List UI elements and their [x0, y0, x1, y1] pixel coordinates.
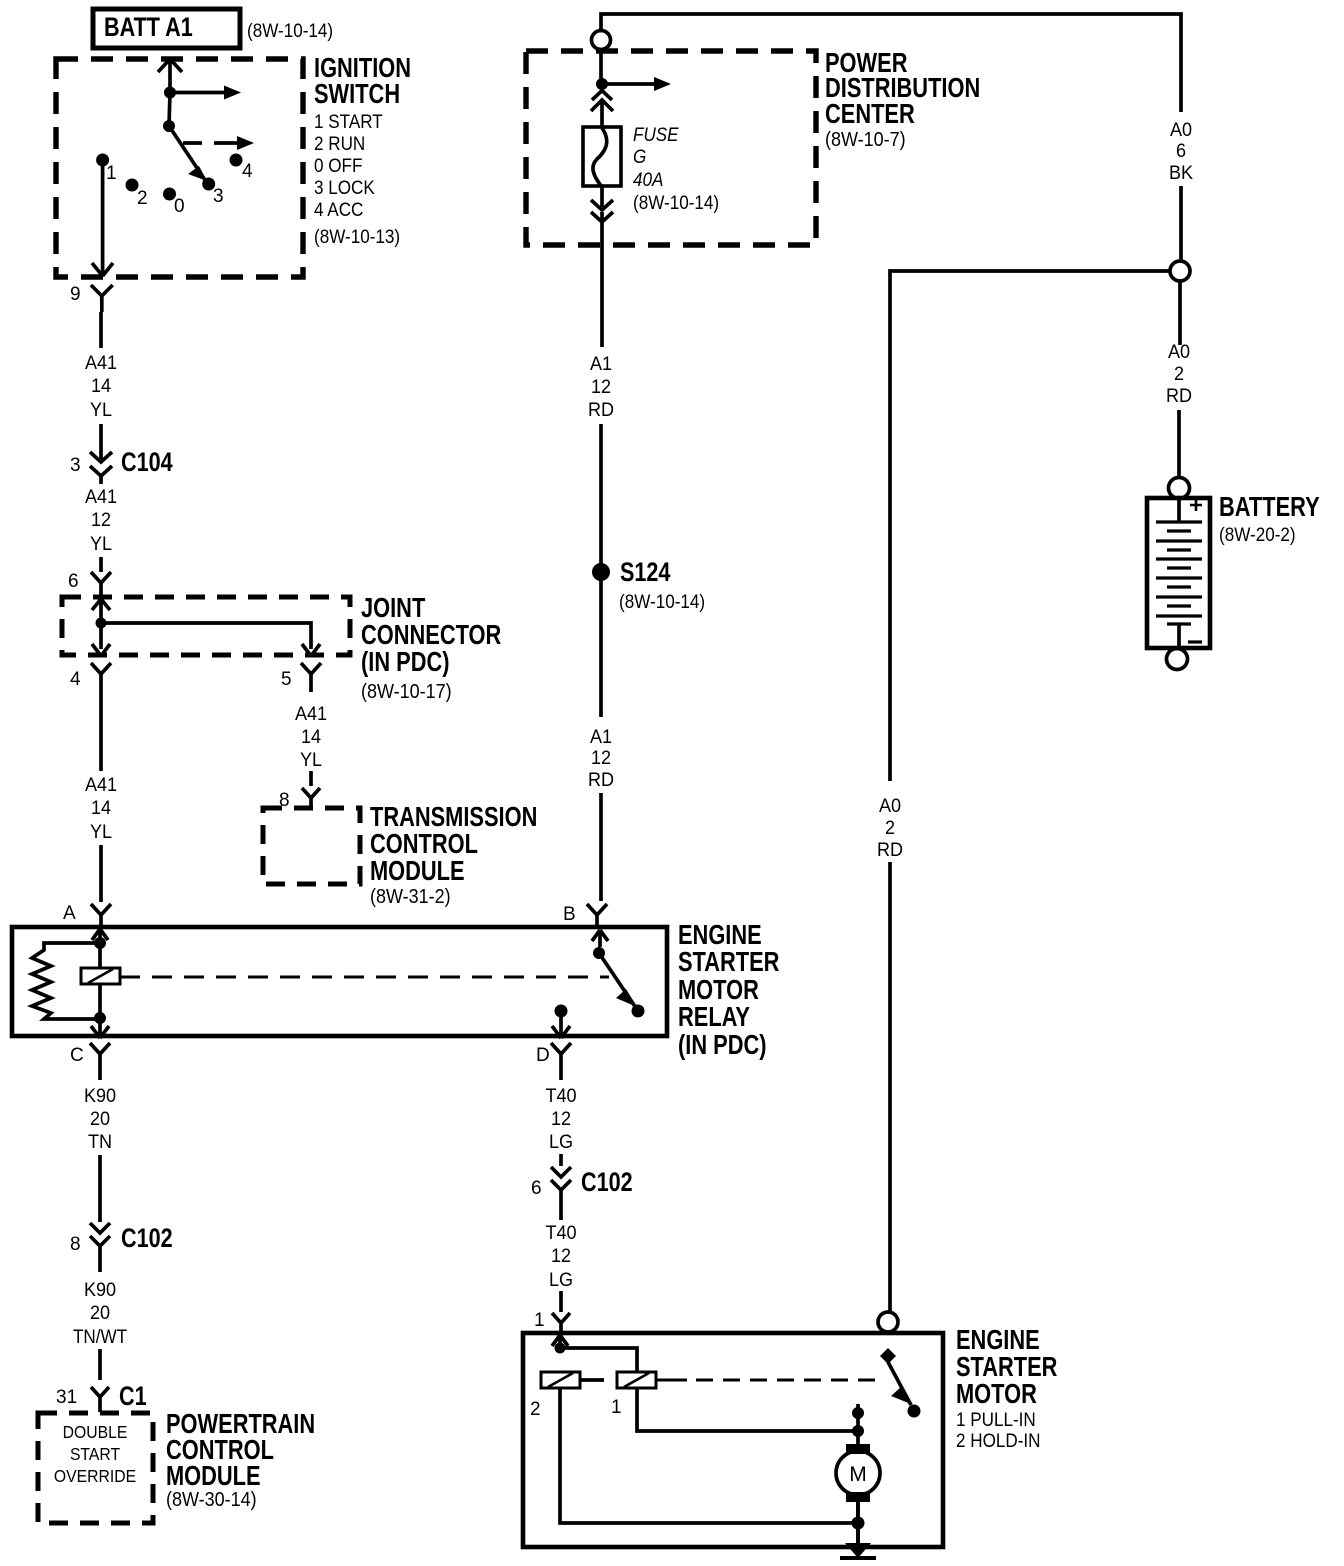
svg-text:RD: RD: [1166, 385, 1192, 407]
svg-text:C104: C104: [121, 448, 173, 478]
svg-text:C102: C102: [581, 1168, 633, 1198]
wire: PDC branch arrow right: [602, 82, 656, 86]
starter B+ diamond contact: [880, 1348, 896, 1364]
svg-text:BK: BK: [1169, 162, 1194, 184]
wire: branch to starter motor: [890, 271, 1170, 781]
svg-text:(8W-10-7): (8W-10-7): [825, 129, 906, 151]
switch contact 4: [230, 154, 243, 167]
svg-text:3 LOCK: 3 LOCK: [314, 177, 375, 198]
svg-text:START: START: [70, 1444, 120, 1464]
svg-text:BATT A1: BATT A1: [104, 13, 193, 43]
svg-text:A0: A0: [1168, 341, 1190, 363]
svg-text:(8W-10-13): (8W-10-13): [314, 226, 400, 247]
relay pin D exit arrow: [552, 1016, 570, 1038]
switch contact 0: [163, 188, 176, 201]
svg-text:(8W-10-14): (8W-10-14): [247, 20, 333, 41]
ignition switch dashed box: [56, 59, 303, 277]
relay pin A entry arrow: [92, 929, 108, 943]
motor terminal dot: [852, 1425, 864, 1437]
svg-text:1: 1: [611, 1397, 622, 1418]
svg-text:2 HOLD-IN: 2 HOLD-IN: [956, 1430, 1041, 1451]
battery internal top lead: [1177, 500, 1181, 522]
connector pin 9 (female Y): [91, 285, 113, 312]
wire: motor terminal stack: [856, 1404, 860, 1446]
arrowhead wiper: [188, 166, 207, 181]
wire: dot A to dot B: [169, 93, 170, 127]
arrowhead PDC branch: [654, 77, 671, 91]
coil mechanical link: [580, 1378, 604, 1382]
svg-text:6: 6: [531, 1178, 542, 1199]
joint connector bus wire: [101, 623, 320, 656]
svg-text:0: 0: [174, 196, 185, 217]
svg-text:4: 4: [70, 669, 81, 690]
svg-text:12: 12: [551, 1245, 571, 1267]
svg-text:A41: A41: [295, 703, 327, 725]
svg-text:RD: RD: [877, 839, 903, 861]
svg-text:(8W-30-14): (8W-30-14): [166, 1489, 257, 1511]
svg-text:TN: TN: [88, 1131, 112, 1153]
svg-text:6: 6: [1176, 140, 1186, 162]
ground symbol: [845, 1543, 871, 1558]
svg-text:M: M: [849, 1463, 867, 1486]
battery internal bottom lead: [1177, 624, 1181, 646]
fuse G rectangle: [583, 127, 621, 186]
svg-text:YL: YL: [90, 399, 112, 421]
joint connector junction dot: [96, 618, 107, 629]
svg-text:(IN PDC): (IN PDC): [361, 646, 450, 677]
svg-text:LG: LG: [549, 1131, 573, 1153]
joint connector entry arrow: [92, 599, 110, 623]
relay suppression resistor: [32, 943, 100, 1019]
wire A1 12 RD to relay pin B: [599, 793, 603, 901]
connector C1 half-Y (pin 31): [91, 1387, 109, 1412]
svg-text:12: 12: [591, 376, 611, 398]
svg-text:4: 4: [242, 161, 253, 182]
dashed accessory arrow: [183, 141, 239, 145]
engine starter motor relay box: [12, 927, 667, 1036]
svg-text:G: G: [633, 146, 646, 167]
motor brush (top): [846, 1444, 870, 1454]
svg-text:(8W-10-14): (8W-10-14): [633, 192, 719, 213]
svg-text:LG: LG: [549, 1269, 573, 1291]
svg-text:A1: A1: [590, 726, 612, 748]
relay coil K1: [81, 968, 120, 984]
motor armature circle: [836, 1451, 880, 1495]
switch wiper from B to position 3: [169, 126, 205, 180]
motor fixed contact dot (upper): [852, 1407, 864, 1419]
switch contact 3: [202, 178, 215, 191]
svg-text:RD: RD: [588, 399, 614, 421]
fuse output chevrons: [591, 186, 613, 347]
svg-text:RD: RD: [588, 769, 614, 791]
hold-in coil 2: [541, 1372, 580, 1388]
svg-text:A0: A0: [1170, 119, 1192, 141]
relay blade arrowhead: [616, 989, 637, 1007]
ground junction dot: [852, 1517, 865, 1530]
svg-text:(8W-10-14): (8W-10-14): [619, 591, 705, 612]
junction dot (wiper pivot): [163, 120, 175, 132]
wire A41 12 YL: [99, 557, 103, 572]
svg-text:(8W-10-17): (8W-10-17): [361, 681, 452, 703]
svg-text:YL: YL: [90, 533, 112, 555]
arrowhead battery output: [224, 86, 241, 100]
svg-text:31: 31: [56, 1387, 77, 1408]
svg-text:T40: T40: [545, 1222, 576, 1244]
svg-text:3: 3: [213, 186, 224, 207]
svg-text:K90: K90: [84, 1085, 116, 1107]
svg-text:4 ACC: 4 ACC: [314, 199, 363, 220]
relay common dot (pin B): [593, 947, 605, 959]
svg-text:FUSE: FUSE: [633, 124, 679, 145]
svg-text:A41: A41: [85, 774, 117, 796]
svg-text:12: 12: [551, 1108, 571, 1130]
battery plates: [1156, 522, 1202, 624]
svg-text:A0: A0: [879, 795, 901, 817]
svg-text:K90: K90: [84, 1279, 116, 1301]
solenoid dashed link to switch: [656, 1379, 687, 1382]
svg-text:2 RUN: 2 RUN: [314, 133, 365, 154]
wire A41 14 YL (lower) to relay pin A: [99, 692, 103, 902]
relay pin C exit arrow: [91, 1018, 109, 1038]
connector pin B Y: [587, 904, 607, 927]
wire A1 12 RD (upper): [599, 424, 603, 564]
svg-text:40A: 40A: [633, 169, 663, 190]
svg-text:(8W-31-2): (8W-31-2): [370, 886, 451, 908]
connector pin 5 Y: [301, 663, 321, 692]
fuse input chevrons: [591, 91, 613, 129]
wire A1 12 RD (lower): [599, 580, 603, 717]
svg-text:9: 9: [70, 284, 81, 305]
wire A0 6 BK: [1179, 186, 1183, 260]
svg-text:0 OFF: 0 OFF: [314, 155, 362, 176]
svg-text:YL: YL: [90, 821, 112, 843]
svg-text:8: 8: [70, 1234, 81, 1255]
wire: pull-in coil to motor terminal: [637, 1388, 858, 1431]
splice S124: [592, 563, 610, 581]
relay switch blade: [599, 953, 636, 1008]
svg-text:12: 12: [591, 747, 611, 769]
battery box: [1147, 498, 1210, 648]
wire T40 12 LG (lower): [559, 1291, 563, 1312]
switch contact 2: [126, 179, 139, 192]
connector pin 1 half-Y: [552, 1313, 570, 1333]
svg-text:1 PULL-IN: 1 PULL-IN: [956, 1409, 1036, 1430]
joint connector exit arrow (pin 4): [92, 623, 110, 656]
pull-in coil 1: [617, 1372, 656, 1388]
engine starter motor box: [523, 1333, 943, 1547]
svg-text:14: 14: [301, 726, 321, 748]
wire K90 20 TN/WT: [98, 1349, 102, 1380]
svg-text:12: 12: [91, 509, 111, 531]
svg-text:A41: A41: [85, 352, 117, 374]
starter switch blade: [888, 1362, 911, 1405]
eyelet at starter B+: [878, 1312, 898, 1332]
svg-text:MODULE: MODULE: [370, 855, 465, 886]
svg-text:5: 5: [281, 669, 292, 690]
svg-text:B: B: [563, 904, 576, 925]
battery minus sign: [1188, 640, 1202, 643]
starter pin 1 dot: [555, 1343, 566, 1354]
connector C102 symbol (pin 8): [90, 1223, 110, 1272]
wire K90 20 TN (upper): [98, 1072, 102, 1222]
svg-text:C: C: [70, 1045, 84, 1066]
relay contact dot: [632, 1005, 645, 1018]
connector pin 4 Y: [91, 663, 111, 692]
svg-text:20: 20: [90, 1302, 110, 1324]
connector pin D Y: [551, 1043, 571, 1072]
svg-text:2: 2: [885, 817, 895, 839]
connector C104 symbol: [90, 424, 112, 484]
battery plus sign: [1190, 499, 1202, 511]
wire: main battery feed top bus: [601, 14, 1181, 112]
battery negative eyelet: [1167, 649, 1188, 670]
connector pin A Y: [91, 904, 111, 927]
connector pin 8 half-Y: [302, 788, 320, 808]
starter moving contact dot: [908, 1405, 921, 1418]
switch contact 1: [96, 154, 109, 167]
eyelet connector at PDC top: [592, 31, 611, 50]
eyelet junction node: [1170, 261, 1190, 281]
svg-text:D: D: [536, 1045, 550, 1066]
svg-text:1 START: 1 START: [314, 111, 383, 132]
connector pin C Y: [90, 1043, 110, 1072]
junction dot in PDC: [596, 78, 608, 90]
transmission control module dashed box: [263, 808, 360, 884]
connector C102 symbol (pin 6): [551, 1167, 571, 1220]
svg-text:A: A: [63, 903, 76, 924]
starter pin 1 entry arrow: [552, 1335, 568, 1348]
svg-text:1: 1: [534, 1310, 545, 1331]
wire A41 14 YL to TCM: [309, 771, 313, 786]
relay actuation dashed link: [120, 976, 609, 979]
svg-text:C1: C1: [119, 1382, 147, 1412]
svg-text:A1: A1: [590, 353, 612, 375]
wire: hold-in coil to ground bus: [560, 1388, 858, 1523]
wire T40 12 LG (upper): [559, 1072, 563, 1166]
wire A0 2 RD to battery: [1179, 281, 1180, 477]
svg-text:A41: A41: [85, 486, 117, 508]
wire: battery output arrow (right): [170, 91, 226, 95]
svg-text:C102: C102: [121, 1224, 173, 1254]
svg-text:MODULE: MODULE: [166, 1460, 261, 1491]
power distribution center dashed box: [526, 51, 816, 245]
svg-text:14: 14: [91, 375, 111, 397]
svg-text:(8W-20-2): (8W-20-2): [1219, 524, 1296, 545]
svg-text:SWITCH: SWITCH: [314, 78, 400, 109]
svg-text:MOTOR: MOTOR: [956, 1378, 1037, 1409]
wire: ignition feed to BATT A1: [158, 59, 182, 92]
svg-text:2: 2: [530, 1399, 541, 1420]
wire: PDC feed into fuse: [599, 50, 603, 82]
svg-text:1: 1: [106, 163, 117, 184]
relay coil top dot: [94, 937, 106, 949]
arrowhead accessory dashed: [237, 136, 254, 150]
svg-text:20: 20: [90, 1108, 110, 1130]
svg-text:3: 3: [70, 455, 81, 476]
relay pin D dot: [555, 1005, 568, 1018]
wire A41 14 YL (upper): [99, 312, 103, 348]
motor brush (bottom): [846, 1492, 870, 1502]
svg-text:TN/WT: TN/WT: [73, 1326, 127, 1347]
svg-text:CENTER: CENTER: [825, 98, 915, 129]
svg-text:T40: T40: [545, 1085, 576, 1107]
svg-text:8: 8: [279, 790, 290, 811]
wire A0 2 RD (to starter, lower): [888, 862, 892, 1311]
svg-text:BATTERY: BATTERY: [1219, 491, 1320, 522]
svg-text:14: 14: [91, 797, 111, 819]
relay coil feed wire: [98, 943, 102, 1018]
fuse element wavy: [593, 128, 607, 187]
wire: position 1 to pin 9: [92, 162, 113, 276]
svg-text:DOUBLE: DOUBLE: [63, 1422, 128, 1442]
svg-text:6: 6: [68, 571, 79, 592]
starter blade arrowhead: [891, 1387, 911, 1404]
svg-text:2: 2: [137, 188, 148, 209]
connector pin 6 half-Y: [91, 572, 111, 597]
wire: pin 1 to pull-in coil: [560, 1348, 637, 1372]
svg-text:2: 2: [1174, 363, 1184, 385]
junction dot (battery feed): [164, 87, 176, 99]
joint connector dashed box: [62, 597, 350, 655]
relay coil bottom dot: [94, 1012, 106, 1024]
svg-text:OVERRIDE: OVERRIDE: [54, 1466, 136, 1486]
svg-text:RELAY: RELAY: [678, 1001, 750, 1032]
wire: motor to ground dot: [856, 1501, 860, 1544]
svg-text:YL: YL: [300, 749, 322, 771]
relay pin B entry arrow: [592, 930, 608, 947]
powertrain control module dashed box: [38, 1413, 153, 1523]
svg-text:S124: S124: [620, 558, 671, 588]
svg-text:(IN PDC): (IN PDC): [678, 1029, 767, 1060]
battery positive eyelet: [1169, 478, 1190, 499]
svg-text:STARTER: STARTER: [678, 946, 779, 977]
fuse block BATT A1: [93, 9, 240, 48]
